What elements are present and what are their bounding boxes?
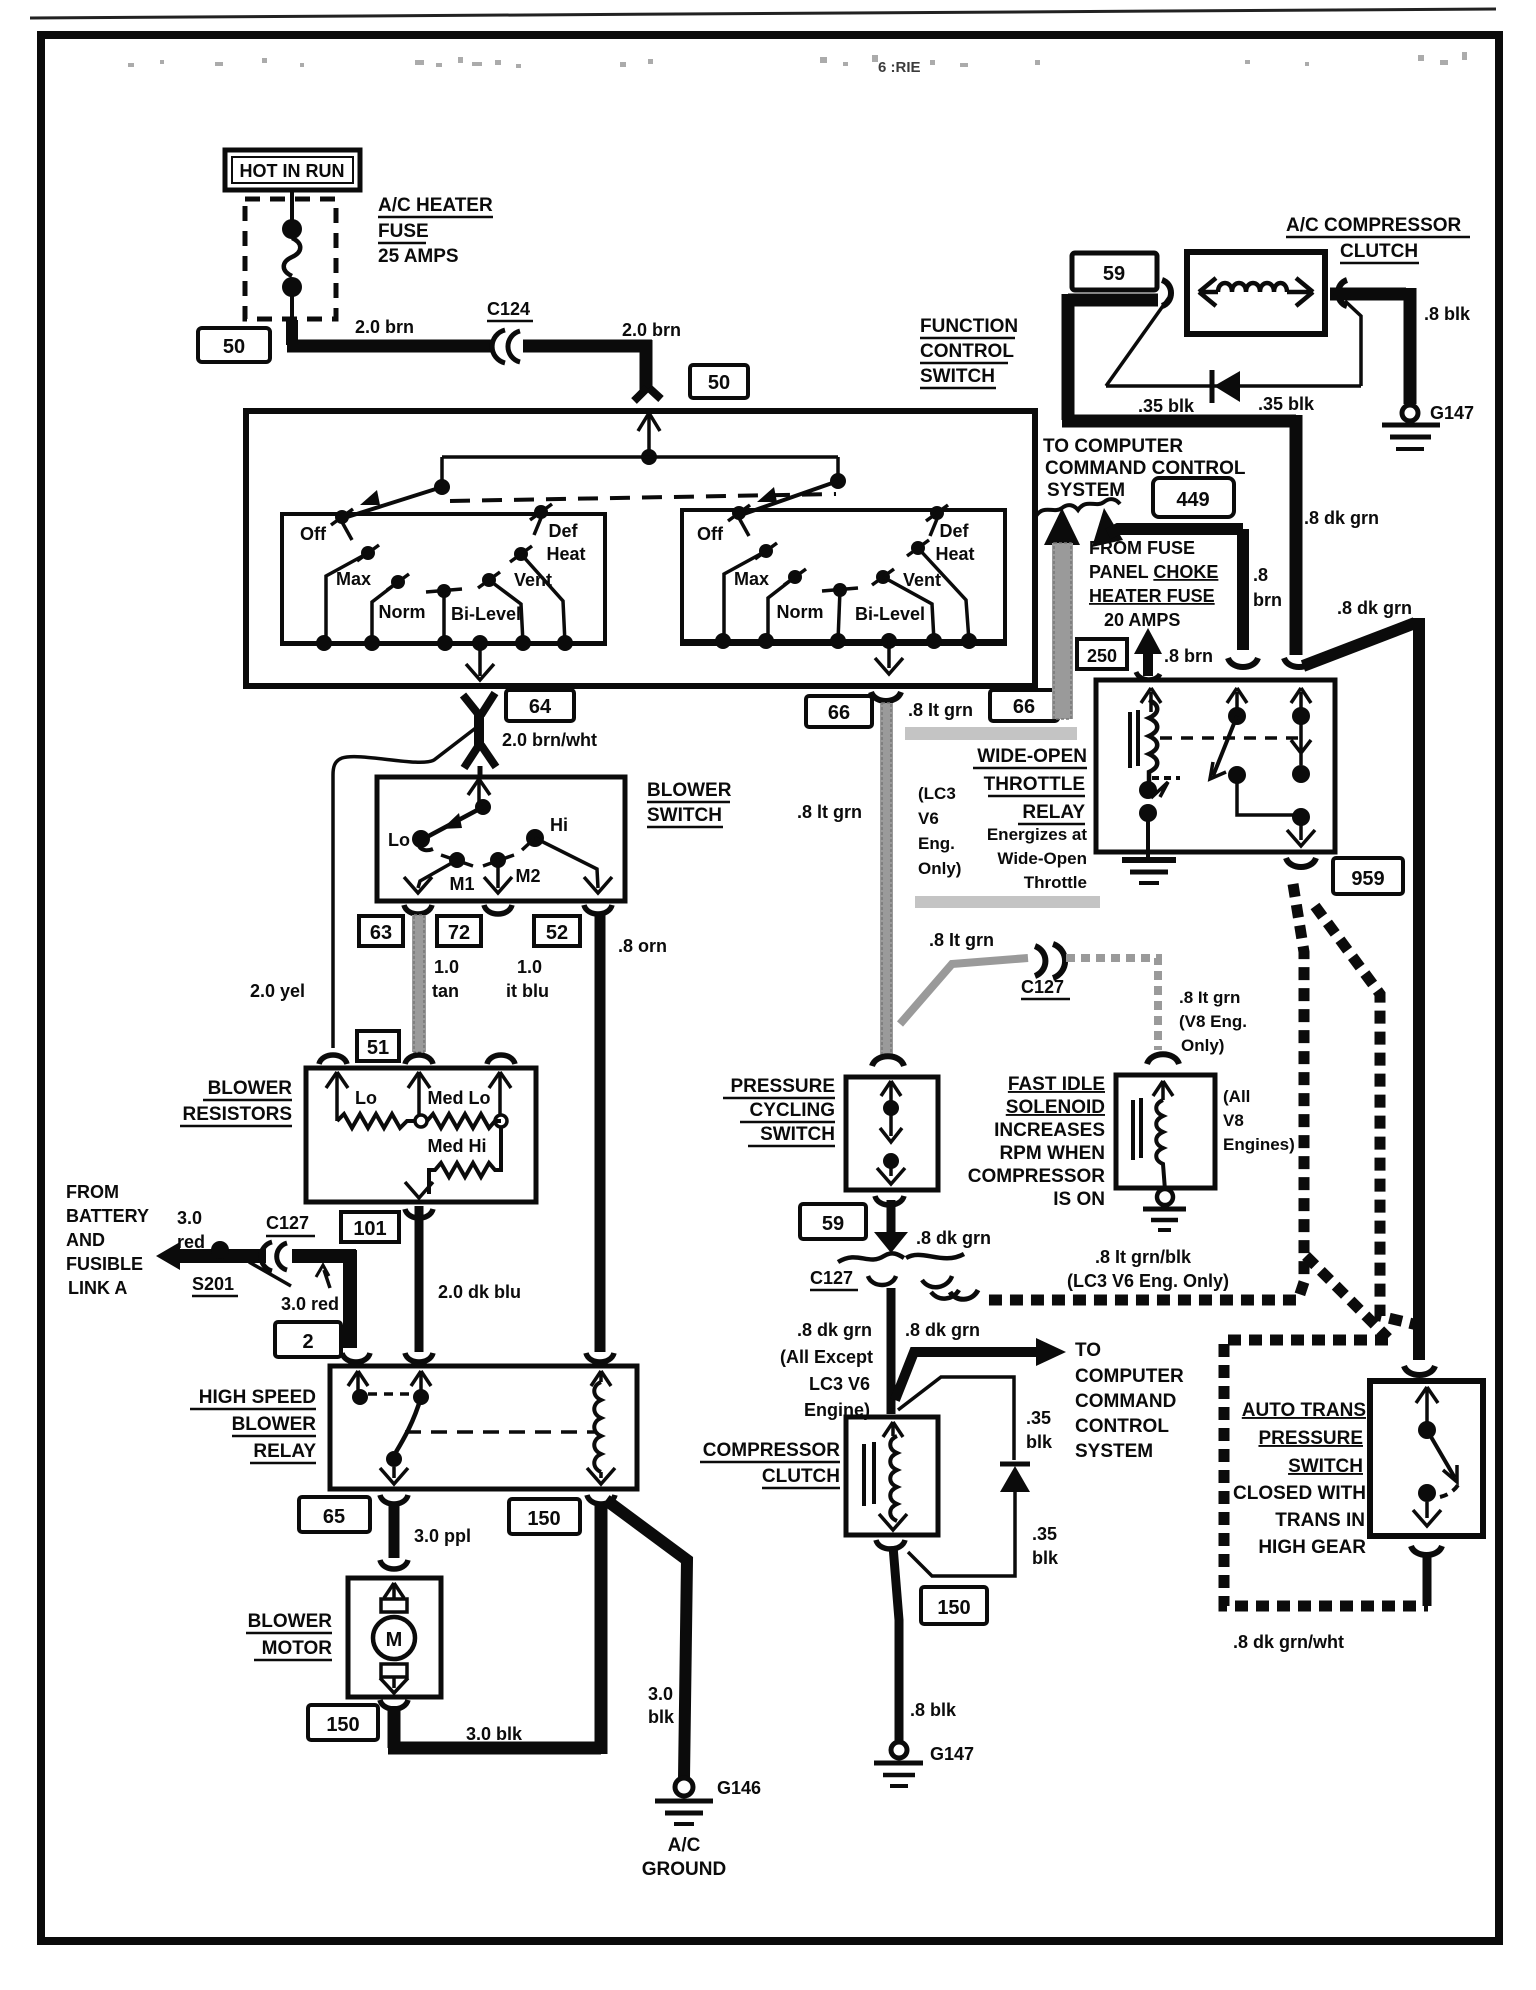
solenoid coil <box>1156 1100 1165 1190</box>
svg-text:Only): Only) <box>1181 1036 1224 1055</box>
fast idle solenoid box <box>1116 1075 1215 1188</box>
svg-text:150: 150 <box>326 1714 359 1736</box>
pressure cycling switch box <box>846 1077 938 1190</box>
wire .8 lt grn/blk hatched from 959 <box>986 884 1428 1606</box>
connector label 150 <box>308 1705 378 1740</box>
connector cup above pressure switch <box>872 1056 904 1066</box>
connector cup 66 <box>871 692 901 701</box>
svg-text:3.0 red: 3.0 red <box>281 1294 339 1314</box>
svg-text:it blu: it blu <box>506 981 549 1001</box>
contact M1 <box>449 852 465 868</box>
connector terminal node 50 (flared) <box>634 388 661 401</box>
connector label 101 <box>341 1212 399 1242</box>
svg-text:72: 72 <box>448 922 470 944</box>
fuse element <box>282 190 302 326</box>
svg-text:2.0 brn: 2.0 brn <box>355 317 414 337</box>
svg-text:.8 dk grn: .8 dk grn <box>797 1320 872 1340</box>
feed arrow from battery <box>156 1242 180 1270</box>
connector C124 <box>492 330 520 363</box>
svg-text:TO COMPUTER: TO COMPUTER <box>1043 436 1183 457</box>
output pin arrow <box>405 1182 433 1198</box>
svg-text:59: 59 <box>1103 263 1125 285</box>
svg-text:blk: blk <box>1032 1548 1059 1568</box>
node left pivot <box>434 479 450 495</box>
svg-text:blk: blk <box>1026 1432 1053 1452</box>
solenoid input pin <box>1153 1081 1173 1100</box>
solenoid ground <box>1143 1189 1186 1230</box>
faint header scan text <box>128 52 1467 68</box>
svg-text:.8 It grn: .8 It grn <box>1179 988 1240 1007</box>
svg-text:Med Lo: Med Lo <box>428 1088 491 1108</box>
svg-text:1.0: 1.0 <box>517 957 542 977</box>
svg-text:MOTOR: MOTOR <box>262 1638 333 1659</box>
ground G147 (top) <box>1382 405 1440 449</box>
splice S201 <box>211 1241 229 1259</box>
svg-text:Vent: Vent <box>903 570 941 590</box>
svg-text:2: 2 <box>302 1331 313 1353</box>
svg-text:A/C: A/C <box>668 1835 701 1856</box>
output pin arrows <box>404 877 612 893</box>
svg-text:.8 dk grn: .8 dk grn <box>1337 598 1412 618</box>
svg-text:A/C COMPRESSOR: A/C COMPRESSOR <box>1286 215 1462 236</box>
clutch plates <box>862 1444 866 1506</box>
wire 2.0 dk blu <box>415 1206 424 1352</box>
hatched wire end squiggle at C127 <box>950 1290 978 1299</box>
svg-text:64: 64 <box>529 696 552 718</box>
svg-text:BLOWER: BLOWER <box>248 1611 333 1632</box>
svg-text:IS ON: IS ON <box>1053 1189 1105 1210</box>
right section contacts Off/Max/Norm/Bi-Level/Vent/Def-Heat <box>682 505 1005 649</box>
solenoid plates <box>1131 1100 1135 1160</box>
label (All V8 Engines) <box>1223 1087 1295 1154</box>
connector label 250 <box>1077 639 1127 669</box>
svg-text:Lo: Lo <box>388 830 410 850</box>
contact Hi <box>526 829 544 847</box>
relay common node <box>386 1451 402 1467</box>
contact Lo <box>412 830 430 848</box>
wire 1.0 tan (faded scan) <box>412 915 426 1052</box>
label TO COMPUTER COMMAND CONTROL SYSTEM (top) <box>1043 436 1246 501</box>
wire .8 brn up-arrow to computer <box>1092 508 1123 547</box>
branch wire .35 blk to diode <box>898 1377 1014 1460</box>
connector cup below <box>405 1209 433 1218</box>
svg-text:C127: C127 <box>810 1268 853 1288</box>
svg-text:Engines): Engines) <box>1223 1135 1295 1154</box>
svg-text:CONTROL: CONTROL <box>920 341 1014 362</box>
connector cup below clutch <box>876 1540 905 1549</box>
label TO COMPUTER COMMAND CONTROL SYSTEM <box>1075 1340 1184 1462</box>
clutch coil <box>890 1436 897 1521</box>
wire M1 to pin <box>418 860 457 888</box>
wiper right section <box>741 481 838 515</box>
left section box <box>282 514 605 644</box>
svg-text:50: 50 <box>708 372 730 394</box>
svg-text:(All Except: (All Except <box>780 1347 873 1367</box>
wire .35 blk lower run <box>1062 415 1296 428</box>
svg-text:66: 66 <box>828 702 850 724</box>
connector label 50 (left) <box>198 328 270 362</box>
svg-text:FUSIBLE: FUSIBLE <box>66 1254 143 1274</box>
wire 3.0 blk motor to relay <box>393 1706 395 1742</box>
a/c compressor clutch coil box <box>1187 252 1325 334</box>
connector cup above auto trans switch <box>1404 1366 1435 1375</box>
svg-text:Max: Max <box>336 569 371 589</box>
svg-text:3.0: 3.0 <box>648 1684 673 1704</box>
svg-text:HIGH GEAR: HIGH GEAR <box>1258 1537 1366 1558</box>
svg-text:CYCLING: CYCLING <box>750 1100 836 1121</box>
wire Hi to pin <box>535 838 598 888</box>
svg-text:2.0 dk blu: 2.0 dk blu <box>438 1282 521 1302</box>
blower switch input pin arrow <box>468 779 490 802</box>
connector label 72 <box>437 916 481 946</box>
wide-open throttle relay box <box>1096 680 1335 852</box>
leader 3.0 red left <box>249 1262 291 1286</box>
connector cup above solenoid <box>1147 1054 1179 1064</box>
svg-text:SWITCH: SWITCH <box>1288 1456 1363 1477</box>
svg-text:BLOWER: BLOWER <box>232 1414 317 1435</box>
svg-text:Heat: Heat <box>935 544 974 564</box>
svg-text:HIGH SPEED: HIGH SPEED <box>199 1387 316 1408</box>
high speed blower relay box <box>330 1366 637 1489</box>
svg-text:2.0 yel: 2.0 yel <box>250 981 305 1001</box>
svg-text:CLUTCH: CLUTCH <box>762 1466 840 1487</box>
connector label 64 <box>506 690 574 721</box>
connector label 2 <box>275 1322 341 1357</box>
svg-text:HOT IN RUN: HOT IN RUN <box>240 161 345 181</box>
svg-text:20 AMPS: 20 AMPS <box>1104 610 1180 630</box>
node ring 2 <box>495 1115 507 1127</box>
motor output pin <box>380 1677 408 1693</box>
ground G147 (lower) <box>874 1742 923 1786</box>
svg-text:Bi-Level: Bi-Level <box>855 604 925 624</box>
svg-text:Norm: Norm <box>776 602 823 622</box>
label FROM FUSE PANEL CHOKE HEATER FUSE 20 AMPS <box>1089 538 1218 630</box>
svg-text:COMPRESSOR: COMPRESSOR <box>703 1440 841 1461</box>
svg-text:(V8 Eng.: (V8 Eng. <box>1179 1012 1247 1031</box>
svg-text:Only): Only) <box>918 859 961 878</box>
svg-text:Vent: Vent <box>514 570 552 590</box>
label (LC3 V6 Eng. Only) <box>918 784 961 878</box>
ground below relay coil <box>1122 860 1176 883</box>
connector label 150 <box>921 1587 987 1624</box>
svg-text:25 AMPS: 25 AMPS <box>378 246 459 267</box>
wire feed bus <box>442 455 838 459</box>
wire 2.0 brn fuse to C124 <box>286 320 298 345</box>
svg-text:G147: G147 <box>930 1744 974 1764</box>
node wiper pivot <box>475 799 491 815</box>
connector label 52 <box>534 916 580 946</box>
svg-text:.8 lt grn: .8 lt grn <box>797 802 862 822</box>
svg-text:2.0 brn: 2.0 brn <box>622 320 681 340</box>
connector cups at WOT relay inputs <box>1228 658 1258 667</box>
connector label 63 <box>359 916 403 946</box>
svg-text:COMPRESSOR: COMPRESSOR <box>968 1166 1106 1187</box>
svg-text:FAST IDLE: FAST IDLE <box>1008 1074 1105 1095</box>
svg-text:Max: Max <box>734 569 769 589</box>
svg-text:59: 59 <box>822 1213 844 1235</box>
wire .8 brn choke feed arrow <box>1143 652 1153 676</box>
source label FROM BATTERY AND FUSIBLE LINK A <box>66 1182 149 1298</box>
svg-text:RELAY: RELAY <box>253 1441 316 1462</box>
svg-text:PRESSURE: PRESSURE <box>1258 1428 1363 1449</box>
connector label 449 <box>1153 478 1234 517</box>
connector label 150 <box>509 1499 580 1534</box>
svg-text:PRESSURE: PRESSURE <box>730 1076 835 1097</box>
svg-text:.8: .8 <box>1253 565 1268 585</box>
connector cups below relay <box>380 1495 615 1504</box>
svg-text:Lo: Lo <box>355 1088 377 1108</box>
svg-text:AUTO TRANS: AUTO TRANS <box>1242 1400 1366 1421</box>
power source box HOT IN RUN <box>225 150 360 190</box>
connector C127 (inline squiggles) <box>838 1253 964 1298</box>
svg-text:RELAY: RELAY <box>1022 802 1085 823</box>
svg-text:51: 51 <box>367 1037 389 1059</box>
connector cup below <box>875 1196 904 1205</box>
svg-text:449: 449 <box>1176 489 1209 511</box>
wire .8 dk grn down right <box>1290 415 1303 655</box>
svg-text:SWITCH: SWITCH <box>647 805 722 826</box>
svg-text:Throttle: Throttle <box>1024 873 1087 892</box>
svg-text:.8 brn: .8 brn <box>1164 646 1213 666</box>
connector cup dk blu <box>405 1353 433 1362</box>
blower motor box <box>348 1578 441 1697</box>
wire 3.0 ppl <box>389 1502 400 1558</box>
diode D2 <box>1210 370 1215 403</box>
wire .8 brn vertical <box>1237 529 1249 650</box>
dashed actuation link <box>1160 736 1298 740</box>
wire .8 lt grn branch to C127 (faded) <box>900 958 1028 1024</box>
svg-text:FUNCTION: FUNCTION <box>920 316 1018 337</box>
svg-text:959: 959 <box>1351 868 1384 890</box>
relay input pins <box>348 1371 611 1390</box>
label A/C HEATER FUSE 25 AMPS <box>378 195 493 267</box>
svg-text:Heat: Heat <box>546 544 585 564</box>
relay right contact pin .8 dk grn <box>1291 688 1311 765</box>
ground G146 <box>655 1778 713 1824</box>
connector label 959 <box>1333 858 1403 894</box>
svg-text:3.0 ppl: 3.0 ppl <box>414 1526 471 1546</box>
node right pivot <box>830 473 846 489</box>
output pin 64 arrow <box>466 643 494 680</box>
compressor clutch box <box>846 1417 938 1535</box>
connector label 66 (left box) <box>806 696 872 727</box>
wire clutch right to ground <box>1330 288 1406 301</box>
svg-text:AND: AND <box>66 1230 105 1250</box>
svg-text:Norm: Norm <box>378 602 425 622</box>
svg-text:M2: M2 <box>515 866 540 886</box>
svg-text:52: 52 <box>546 922 568 944</box>
svg-text:101: 101 <box>353 1218 386 1240</box>
branch wire to computer <box>895 1352 1038 1400</box>
resistor Lo <box>337 1114 415 1128</box>
resistor Med Lo <box>427 1114 501 1128</box>
svg-text:SWITCH: SWITCH <box>920 366 995 387</box>
svg-text:FROM FUSE: FROM FUSE <box>1089 538 1195 558</box>
connector label 59 <box>800 1204 866 1239</box>
svg-text:(LC3: (LC3 <box>918 784 956 803</box>
svg-text:.8 orn: .8 orn <box>618 936 667 956</box>
svg-text:CONTROL: CONTROL <box>1075 1416 1169 1437</box>
svg-text:INCREASES: INCREASES <box>994 1120 1105 1141</box>
fuse F1 A/C heater fuse (dashed box) <box>245 199 336 319</box>
wire .8 lt grn V8 branch (faded) <box>1066 958 1158 1050</box>
connector cup <box>342 1353 370 1362</box>
connector cups above resistors <box>319 1055 515 1064</box>
svg-text:.8 blk: .8 blk <box>1424 304 1471 324</box>
motor M <box>381 1599 407 1612</box>
svg-text:blk: blk <box>648 1707 675 1727</box>
svg-text:A/C HEATER: A/C HEATER <box>378 195 493 216</box>
auto trans pressure switch box <box>1370 1381 1483 1536</box>
relay coil lower node <box>1152 776 1180 780</box>
wire .8 dk grn with arrow <box>887 1200 896 1238</box>
connector label 59 <box>1072 253 1157 290</box>
page top edge scan line <box>30 9 1496 18</box>
right section box <box>682 510 1005 644</box>
switch blade <box>1427 1430 1455 1478</box>
dashed link <box>368 1392 412 1396</box>
blower switch box <box>377 777 625 901</box>
relay output pins <box>380 1467 615 1484</box>
svg-text:BATTERY: BATTERY <box>66 1206 149 1226</box>
svg-text:Def: Def <box>548 521 578 541</box>
switch input pin <box>1416 1387 1438 1422</box>
connector cup below switch <box>1411 1546 1442 1555</box>
svg-text:Def: Def <box>939 521 969 541</box>
svg-text:.35 blk: .35 blk <box>1258 394 1315 414</box>
connector C127 <box>261 1242 287 1271</box>
function control switch outer box <box>246 411 1035 686</box>
svg-text:FUSE: FUSE <box>378 221 429 242</box>
svg-text:COMPUTER: COMPUTER <box>1075 1366 1184 1387</box>
pressure switch internals <box>877 1081 905 1184</box>
svg-text:.8 It grn/blk: .8 It grn/blk <box>1095 1247 1192 1267</box>
svg-text:SOLENOID: SOLENOID <box>1006 1097 1105 1118</box>
svg-text:BLOWER: BLOWER <box>647 780 732 801</box>
connector cup above motor <box>380 1560 408 1569</box>
wire 64 to blower switch <box>478 766 483 777</box>
svg-text:Med Hi: Med Hi <box>427 1136 486 1156</box>
relay contact B <box>413 1389 429 1405</box>
wire 59 to clutch <box>1068 294 1158 307</box>
svg-text:V8: V8 <box>1223 1111 1244 1130</box>
wire .8 orn <box>595 912 606 1352</box>
wire 2.0 yel loop <box>333 727 477 1048</box>
relay wiper <box>1213 716 1237 776</box>
svg-text:C124: C124 <box>487 299 530 319</box>
wire 2.0 brn C124 to switch <box>523 340 652 353</box>
svg-text:(LC3 V6 Eng. Only): (LC3 V6 Eng. Only) <box>1067 1271 1229 1291</box>
connector label 51 <box>357 1031 399 1061</box>
svg-text:.8 dk grn/wht: .8 dk grn/wht <box>1233 1632 1344 1652</box>
resistor Med Hi <box>429 1127 501 1194</box>
blower resistors box <box>306 1068 536 1202</box>
relay contact A <box>352 1389 368 1405</box>
output pin 66 arrow <box>875 641 903 674</box>
svg-text:.35: .35 <box>1026 1408 1051 1428</box>
connector cup orn <box>586 1353 614 1362</box>
svg-text:RPM WHEN: RPM WHEN <box>999 1143 1105 1164</box>
svg-text:M1: M1 <box>449 874 474 894</box>
input pin arrow from 50 <box>638 413 660 457</box>
wire .8 dk grn to auto trans switch <box>1303 623 1415 666</box>
wire 3.0 red to relay <box>292 1250 356 1348</box>
svg-text:C127: C127 <box>266 1213 309 1233</box>
clutch input pin <box>883 1422 903 1437</box>
svg-text:66: 66 <box>1013 696 1035 718</box>
svg-text:RESISTORS: RESISTORS <box>183 1104 292 1125</box>
svg-text:.8 It grn: .8 It grn <box>929 930 994 950</box>
svg-text:.8 dk grn: .8 dk grn <box>1304 508 1379 528</box>
svg-text:PANEL CHOKE: PANEL CHOKE <box>1089 562 1218 582</box>
svg-text:63: 63 <box>370 922 392 944</box>
svg-text:G146: G146 <box>717 1778 761 1798</box>
svg-text:65: 65 <box>323 1506 345 1528</box>
svg-text:LC3 V6: LC3 V6 <box>809 1374 870 1394</box>
motor input pin <box>384 1583 404 1600</box>
svg-text:.35: .35 <box>1032 1524 1057 1544</box>
relay coil plates <box>1128 712 1132 768</box>
svg-text:Off: Off <box>300 524 327 544</box>
svg-text:G147: G147 <box>1430 403 1474 423</box>
svg-text:COMMAND CONTROL: COMMAND CONTROL <box>1045 458 1246 479</box>
svg-text:150: 150 <box>527 1508 560 1530</box>
svg-text:(All: (All <box>1223 1087 1250 1106</box>
relay coil <box>594 1382 601 1472</box>
svg-text:TRANS IN: TRANS IN <box>1275 1510 1365 1531</box>
input pin arrows <box>326 1072 511 1121</box>
connector C127 halves <box>1035 944 1065 978</box>
svg-text:TO: TO <box>1075 1340 1101 1361</box>
svg-text:SYSTEM: SYSTEM <box>1075 1441 1153 1462</box>
wire 449 up-arrow (faded) <box>1044 508 1080 545</box>
svg-text:BLOWER: BLOWER <box>208 1078 293 1099</box>
svg-text:Hi: Hi <box>550 815 568 835</box>
svg-text:1.0: 1.0 <box>434 957 459 977</box>
svg-text:Off: Off <box>697 524 724 544</box>
svg-text:GROUND: GROUND <box>642 1859 726 1880</box>
wire .8 dk grn to clutch <box>887 1288 896 1414</box>
wire 3.0 blk to ground <box>606 1500 687 1778</box>
svg-text:3.0: 3.0 <box>177 1208 202 1228</box>
svg-text:6 :RIΕ: 6 :RIΕ <box>878 59 921 76</box>
wiper left section <box>344 487 442 518</box>
svg-text:.8 dk grn: .8 dk grn <box>905 1320 980 1340</box>
svg-text:.35 blk: .35 blk <box>1138 396 1195 416</box>
off-page squiggle <box>1036 499 1120 516</box>
blower switch wiper <box>419 807 483 850</box>
connector cup at coil box left <box>1162 280 1171 306</box>
svg-text:3.0 blk: 3.0 blk <box>466 1724 523 1744</box>
svg-text:WIDE-OPEN: WIDE-OPEN <box>977 746 1087 767</box>
relay wiper <box>396 1397 421 1452</box>
connector cup below motor <box>380 1700 408 1709</box>
svg-text:COMMAND: COMMAND <box>1075 1391 1176 1412</box>
ganged switch dashed link <box>450 494 836 501</box>
node junction center <box>641 449 657 465</box>
svg-text:Energizes at: Energizes at <box>987 825 1087 844</box>
wire 3.0 red <box>176 1249 266 1263</box>
wire stub to hatched <box>1423 1552 1432 1606</box>
svg-text:LINK A: LINK A <box>68 1278 127 1298</box>
leader 3.0 red right (arrow) <box>324 1270 330 1288</box>
wire .8 lt grn (66) faded scan <box>880 703 893 1055</box>
svg-text:2.0 brn/wht: 2.0 brn/wht <box>502 730 597 750</box>
connector label 66 (right box) <box>990 690 1058 721</box>
thin diode bypass wire <box>1106 296 1170 386</box>
connector 64 (hourglass) <box>463 693 496 768</box>
relay center contact pin .8 brn <box>1227 688 1247 710</box>
